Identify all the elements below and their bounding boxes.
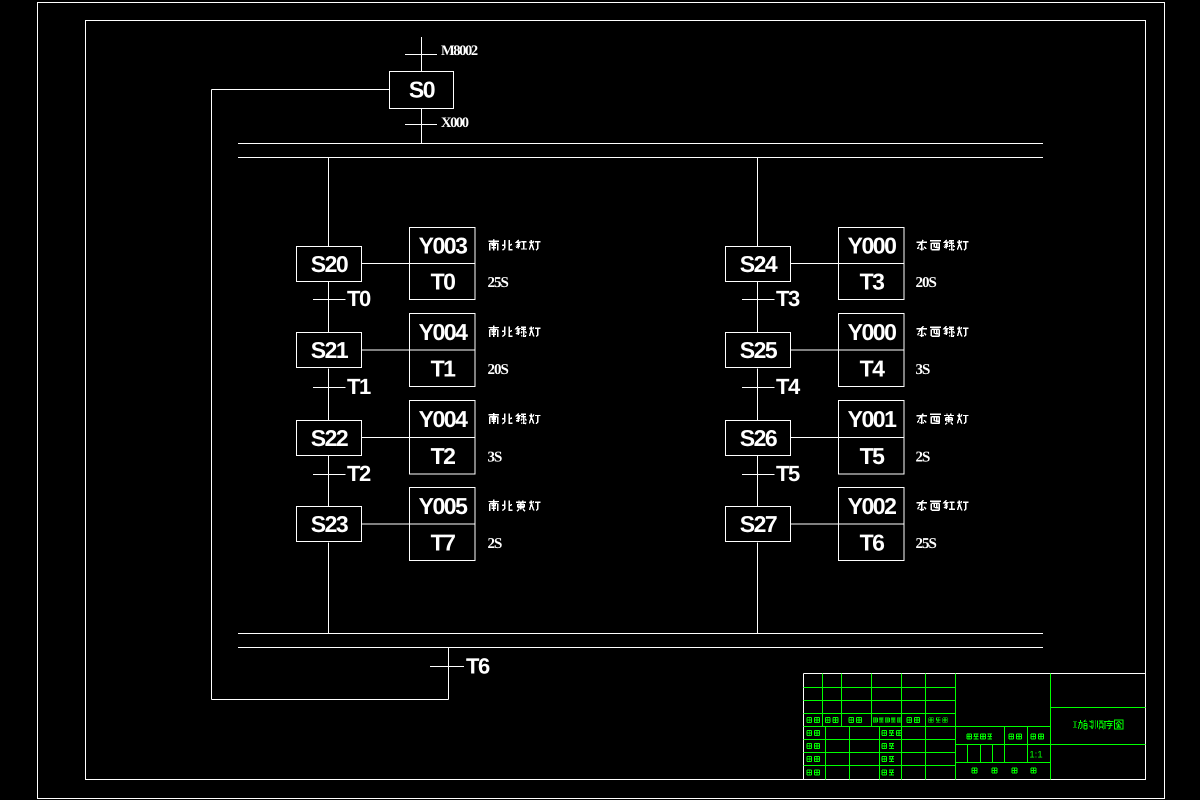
output box Y005/T7 — [410, 488, 476, 561]
title block grid — [804, 674, 1146, 780]
output box Y002/T6 — [839, 488, 905, 561]
drawing title 功能顺序图 — [1073, 720, 1123, 729]
output box Y003/T0 — [410, 228, 476, 300]
svg-text:Y003: Y003 — [419, 233, 467, 259]
svg-text:1:1: 1:1 — [1029, 750, 1042, 761]
annotation lamp name — [917, 500, 969, 511]
label S21 — [311, 337, 349, 363]
wire S22 to output — [362, 437, 410, 439]
annotation lamp name — [489, 500, 541, 512]
label S26 — [740, 425, 777, 451]
stage mark / quality / scale labels — [967, 734, 1044, 739]
output box Y004/T1 — [410, 314, 476, 387]
parallel convergence double line — [238, 634, 1043, 648]
svg-text:S25: S25 — [740, 337, 778, 363]
label T4 — [776, 374, 801, 399]
step S25 box — [726, 333, 791, 368]
label X000 — [441, 115, 469, 131]
transition X000 tick — [405, 124, 437, 126]
svg-text:T4: T4 — [776, 374, 801, 399]
svg-text:S21: S21 — [311, 337, 349, 363]
svg-text:T1: T1 — [431, 355, 457, 381]
svg-text:T4: T4 — [860, 355, 886, 381]
transition T2 tick — [313, 474, 346, 476]
scale value 1:1 — [1029, 750, 1042, 761]
svg-text:S23: S23 — [311, 511, 348, 537]
annotation lamp name — [489, 413, 541, 424]
label S0 — [409, 77, 435, 103]
step S0 box — [390, 72, 454, 109]
label T3 — [860, 269, 885, 295]
label T3 — [776, 286, 800, 311]
output box Y004/T2 — [410, 401, 476, 475]
svg-text:20S: 20S — [916, 275, 937, 291]
annotation time 25S — [488, 275, 509, 291]
label Y001 — [848, 406, 897, 432]
output box Y000/T4 — [839, 314, 905, 387]
sheet count row — [972, 768, 1036, 773]
transition T1 tick — [313, 387, 346, 389]
transition T5 tick — [742, 474, 775, 476]
svg-text:T0: T0 — [431, 269, 456, 295]
label T0 — [431, 269, 456, 295]
svg-text:3S: 3S — [488, 449, 503, 465]
wire convergence to T6 — [448, 648, 450, 700]
wire S24 to output — [791, 263, 839, 265]
transition M8002 tick — [405, 54, 437, 56]
annotation time 20S — [916, 275, 937, 291]
wire S23 to output — [362, 523, 410, 525]
svg-text:T0: T0 — [347, 286, 371, 311]
svg-text:M8002: M8002 — [441, 43, 478, 59]
label T0 — [347, 286, 371, 311]
transition T4 tick — [742, 387, 775, 389]
annotation time 2S — [488, 536, 503, 552]
svg-text:T3: T3 — [776, 286, 800, 311]
svg-text:T5: T5 — [776, 461, 800, 486]
svg-text:X000: X000 — [441, 115, 469, 131]
svg-text:S20: S20 — [311, 251, 348, 277]
svg-text:Y000: Y000 — [848, 319, 896, 345]
transition T0 tick — [313, 299, 346, 301]
annotation time 25S — [916, 536, 937, 552]
wire return bottom — [212, 699, 449, 701]
label Y005 — [419, 493, 468, 519]
output box Y001/T5 — [839, 401, 905, 475]
svg-text:Y002: Y002 — [848, 493, 896, 519]
step S20 box — [297, 247, 362, 282]
svg-text:25S: 25S — [916, 536, 937, 552]
label S23 — [311, 511, 348, 537]
label T6 — [860, 529, 885, 555]
svg-text:T2: T2 — [431, 443, 456, 469]
label Y000 — [848, 319, 896, 345]
wire S20 to output — [362, 263, 410, 265]
title block frame — [804, 674, 1146, 780]
step S21 box — [297, 333, 362, 368]
svg-text:Y001: Y001 — [848, 406, 897, 432]
svg-text:Y005: Y005 — [419, 493, 468, 519]
svg-text:T6: T6 — [466, 654, 490, 679]
label T5 — [776, 461, 800, 486]
svg-text:T2: T2 — [347, 461, 371, 486]
annotation time 3S — [916, 362, 931, 378]
label Y002 — [848, 493, 896, 519]
label T2 — [347, 461, 371, 486]
label S22 — [311, 425, 348, 451]
label T4 — [860, 355, 886, 381]
svg-text:T7: T7 — [431, 529, 456, 555]
svg-text:3S: 3S — [916, 362, 931, 378]
label S24 — [740, 251, 778, 277]
label Y004 — [419, 319, 468, 345]
wire into transition M8002 — [421, 37, 423, 72]
wire right branch vertical — [757, 158, 759, 634]
parallel divergence double line — [238, 144, 1043, 158]
step S26 box — [726, 421, 791, 456]
svg-text:S0: S0 — [409, 77, 435, 103]
title block header row texts — [807, 718, 947, 723]
step S23 box — [297, 507, 362, 542]
annotation time 3S — [488, 449, 503, 465]
label M8002 — [441, 43, 478, 59]
transition T3 tick — [742, 299, 775, 301]
svg-text:T3: T3 — [860, 269, 885, 295]
label Y000 — [848, 233, 896, 259]
label Y004 — [419, 406, 468, 432]
label Y003 — [419, 233, 467, 259]
label S25 — [740, 337, 778, 363]
svg-text:S26: S26 — [740, 425, 777, 451]
annotation lamp name — [917, 326, 969, 337]
annotation lamp name — [489, 239, 541, 250]
svg-text:20S: 20S — [488, 362, 509, 378]
output box Y000/T3 — [839, 228, 905, 300]
wire S21 to output — [362, 349, 410, 351]
svg-text:Y004: Y004 — [419, 406, 468, 432]
svg-text:S27: S27 — [740, 511, 777, 537]
wire S0 to divergence — [421, 109, 423, 144]
title block row labels — [807, 731, 901, 775]
svg-text:2S: 2S — [488, 536, 503, 552]
label T7 — [431, 529, 456, 555]
annotation lamp name — [917, 414, 969, 425]
annotation time 20S — [488, 362, 509, 378]
label T1 — [347, 374, 371, 399]
label S27 — [740, 511, 777, 537]
wire S25 to output — [791, 349, 839, 351]
svg-text:T5: T5 — [860, 443, 886, 469]
wire return left vertical — [211, 90, 213, 700]
label T2 — [431, 443, 456, 469]
svg-text:T1: T1 — [347, 374, 371, 399]
label T5 — [860, 443, 886, 469]
transition T6 tick — [430, 666, 464, 668]
wire S27 to output — [791, 523, 839, 525]
step S24 box — [726, 247, 791, 282]
wire left branch vertical — [328, 158, 330, 634]
step S27 box — [726, 507, 791, 542]
annotation time 2S — [916, 449, 931, 465]
svg-text:2S: 2S — [916, 449, 931, 465]
svg-text:25S: 25S — [488, 275, 509, 291]
svg-text:T6: T6 — [860, 529, 885, 555]
wire return into S0 — [212, 89, 390, 91]
label S20 — [311, 251, 348, 277]
step S22 box — [297, 421, 362, 456]
svg-text:Y004: Y004 — [419, 319, 468, 345]
annotation lamp name — [489, 326, 541, 337]
annotation lamp name — [917, 240, 969, 251]
label T6 — [466, 654, 490, 679]
wire S26 to output — [791, 437, 839, 439]
svg-text:S24: S24 — [740, 251, 778, 277]
label T1 — [431, 355, 457, 381]
svg-text:S22: S22 — [311, 425, 348, 451]
svg-text:Y000: Y000 — [848, 233, 896, 259]
